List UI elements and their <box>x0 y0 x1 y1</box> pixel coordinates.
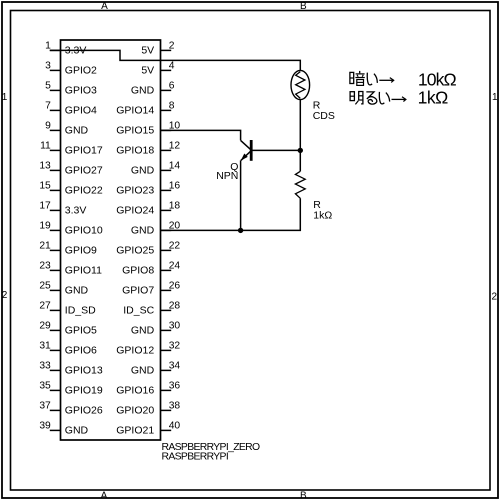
pin 30 (GND) right stub <box>131 321 181 337</box>
svg-text:37: 37 <box>39 401 51 412</box>
svg-text:19: 19 <box>39 221 51 232</box>
svg-text:11: 11 <box>40 141 51 152</box>
svg-text:14: 14 <box>169 161 181 172</box>
svg-text:26: 26 <box>169 281 181 292</box>
svg-text:24: 24 <box>169 261 181 272</box>
pin 3 (GPIO2) left stub <box>45 61 97 77</box>
svg-text:NPN: NPN <box>216 170 238 182</box>
annotation arrow right (line1) <box>379 78 393 83</box>
pin 19 (GPIO10) left stub <box>39 221 103 237</box>
svg-text:30: 30 <box>169 321 181 332</box>
wire CDS bottom to divider node <box>299 100 301 151</box>
svg-text:GND: GND <box>131 225 155 237</box>
svg-text:9: 9 <box>45 121 51 132</box>
svg-text:8: 8 <box>169 101 175 112</box>
svg-text:GPIO8: GPIO8 <box>122 265 154 277</box>
svg-text:GND: GND <box>65 285 89 297</box>
pin 34 (GND) right stub <box>131 361 181 377</box>
svg-text:GND: GND <box>131 165 155 177</box>
svg-text:GPIO4: GPIO4 <box>65 105 97 117</box>
pin 2 (5V) right stub <box>141 41 174 57</box>
svg-text:2: 2 <box>169 41 175 52</box>
pin 26 (GPIO7) right stub <box>122 281 180 297</box>
pin 11 (GPIO17) left stub <box>40 141 103 157</box>
svg-text:RASPBERRYPI: RASPBERRYPI <box>162 452 229 463</box>
pin 5 (GPIO3) left stub <box>45 81 97 97</box>
junction node emitter-GND <box>238 228 243 233</box>
svg-text:B: B <box>300 1 307 12</box>
svg-text:25: 25 <box>39 281 51 292</box>
pin 36 (GPIO16) right stub <box>116 381 180 397</box>
svg-text:33: 33 <box>39 361 51 372</box>
svg-text:GPIO2: GPIO2 <box>65 65 97 77</box>
pin 21 (GPIO9) left stub <box>39 241 97 257</box>
svg-text:GPIO21: GPIO21 <box>116 425 154 437</box>
svg-text:21: 21 <box>39 241 51 252</box>
svg-text:28: 28 <box>169 301 181 312</box>
svg-text:22: 22 <box>169 241 181 252</box>
svg-text:1kΩ: 1kΩ <box>313 210 332 222</box>
wire transistor base to divider node <box>252 149 300 151</box>
wire pin1 3.3V to CDS top (steps down across IC) <box>50 50 300 70</box>
svg-text:GPIO12: GPIO12 <box>116 345 154 357</box>
svg-text:GND: GND <box>131 325 155 337</box>
svg-text:ID_SD: ID_SD <box>65 305 96 317</box>
wire pin20 GND rail to resistor bottom <box>161 198 301 230</box>
svg-text:GND: GND <box>65 425 89 437</box>
resistor R 1k zigzag <box>295 171 305 198</box>
svg-text:40: 40 <box>169 421 181 432</box>
svg-text:GPIO18: GPIO18 <box>116 145 154 157</box>
pin 18 (GPIO24) right stub <box>116 201 180 217</box>
pin 14 (GND) right stub <box>131 161 181 177</box>
pin 35 (GPIO19) left stub <box>39 381 103 397</box>
svg-text:GPIO14: GPIO14 <box>116 105 154 117</box>
svg-text:GPIO3: GPIO3 <box>65 85 97 97</box>
svg-text:A: A <box>101 490 108 500</box>
svg-text:5V: 5V <box>141 45 154 57</box>
svg-text:31: 31 <box>39 341 51 352</box>
svg-text:38: 38 <box>169 401 181 412</box>
svg-text:GPIO20: GPIO20 <box>116 405 154 417</box>
pin 38 (GPIO20) right stub <box>116 401 180 417</box>
pin 27 (ID_SD) left stub <box>39 301 96 317</box>
pin 9 (GND) left stub <box>45 121 88 137</box>
svg-text:GPIO13: GPIO13 <box>65 365 103 377</box>
pin 4 (5V) right stub <box>141 61 174 77</box>
svg-text:GPIO22: GPIO22 <box>65 185 103 197</box>
svg-text:36: 36 <box>169 381 181 392</box>
pin 12 (GPIO18) right stub <box>116 141 180 157</box>
svg-text:GPIO10: GPIO10 <box>65 225 103 237</box>
svg-text:3.3V: 3.3V <box>65 205 87 217</box>
pin 16 (GPIO23) right stub <box>116 181 180 197</box>
svg-text:12: 12 <box>169 141 181 152</box>
svg-text:GPIO25: GPIO25 <box>116 245 154 257</box>
svg-text:1kΩ: 1kΩ <box>418 88 449 108</box>
svg-text:6: 6 <box>169 81 175 92</box>
svg-text:7: 7 <box>45 101 51 112</box>
svg-text:GPIO26: GPIO26 <box>65 405 103 417</box>
svg-text:5: 5 <box>45 81 51 92</box>
svg-text:1: 1 <box>492 92 498 103</box>
svg-text:39: 39 <box>39 421 51 432</box>
svg-text:GPIO11: GPIO11 <box>65 265 102 277</box>
pin 23 (GPIO11) left stub <box>39 261 102 277</box>
svg-text:4: 4 <box>169 61 175 72</box>
svg-text:GPIO19: GPIO19 <box>65 385 103 397</box>
svg-text:13: 13 <box>39 161 51 172</box>
annotation arrow right (line2) <box>392 97 406 102</box>
svg-text:GND: GND <box>131 85 155 97</box>
pin 32 (GPIO12) right stub <box>116 341 180 357</box>
svg-text:2: 2 <box>492 292 498 303</box>
svg-text:GPIO16: GPIO16 <box>116 385 154 397</box>
annotation text kana I (line2) <box>379 93 389 104</box>
svg-text:GPIO6: GPIO6 <box>65 345 97 357</box>
svg-text:1: 1 <box>2 92 8 103</box>
svg-text:GND: GND <box>65 125 89 137</box>
svg-text:GPIO24: GPIO24 <box>116 205 154 217</box>
pin 8 (GPIO14) right stub <box>116 101 174 117</box>
wire transistor emitter down to GND rail <box>240 160 242 230</box>
transistor Q NPN (mirrored, base right) <box>241 140 252 161</box>
svg-text:ID_SC: ID_SC <box>123 305 154 317</box>
annotation text kana I (line1) <box>367 73 377 85</box>
pin 22 (GPIO25) right stub <box>116 241 180 257</box>
svg-text:GPIO9: GPIO9 <box>65 245 97 257</box>
pin 31 (GPIO6) left stub <box>39 341 97 357</box>
annotation text kana RU <box>367 92 377 104</box>
svg-text:GPIO23: GPIO23 <box>116 185 154 197</box>
annotation text kanji KURAI (dark) <box>350 71 365 86</box>
wire divider node down to resistor R 1k top <box>299 150 301 171</box>
svg-text:16: 16 <box>169 181 181 192</box>
pin 6 (GND) right stub <box>131 81 175 97</box>
svg-text:29: 29 <box>39 321 51 332</box>
pin 1 (3.3V) left stub <box>45 41 86 57</box>
svg-text:GPIO7: GPIO7 <box>122 285 154 297</box>
svg-text:27: 27 <box>39 301 51 312</box>
svg-text:17: 17 <box>39 201 51 212</box>
svg-text:GPIO15: GPIO15 <box>116 125 154 137</box>
svg-text:32: 32 <box>169 341 181 352</box>
svg-text:2: 2 <box>2 290 8 301</box>
wire pin10 GPIO15 to transistor collector <box>161 130 241 140</box>
pin 24 (GPIO8) right stub <box>122 261 180 277</box>
svg-text:35: 35 <box>39 381 51 392</box>
pin 17 (3.3V) left stub <box>39 201 86 217</box>
junction node divider (CDS / R 1k / base) <box>298 148 303 153</box>
svg-text:5V: 5V <box>141 65 154 77</box>
svg-text:23: 23 <box>39 261 51 272</box>
pin 40 (GPIO21) right stub <box>116 421 180 437</box>
pin 37 (GPIO26) left stub <box>39 401 103 417</box>
svg-text:CDS: CDS <box>313 110 335 122</box>
IC U1 RASPBERRYPI_ZERO body <box>61 40 161 440</box>
svg-text:GPIO27: GPIO27 <box>65 165 103 177</box>
svg-text:GPIO17: GPIO17 <box>65 145 103 157</box>
svg-text:B: B <box>300 490 307 500</box>
pin 7 (GPIO4) left stub <box>45 101 97 117</box>
pin 29 (GPIO5) left stub <box>39 321 97 337</box>
pin 25 (GND) left stub <box>39 281 88 297</box>
pin 15 (GPIO22) left stub <box>39 181 103 197</box>
svg-text:GND: GND <box>131 365 155 377</box>
pin 39 (GND) left stub <box>39 421 88 437</box>
pin 13 (GPIO27) left stub <box>39 161 103 177</box>
svg-text:A: A <box>101 1 108 12</box>
annotation text kanji AKARUI (bright) <box>350 92 363 105</box>
pin 20 (GND) right stub <box>131 221 181 237</box>
svg-text:15: 15 <box>39 181 51 192</box>
svg-text:GPIO5: GPIO5 <box>65 325 97 337</box>
pin 33 (GPIO13) left stub <box>39 361 103 377</box>
pin 10 (GPIO15) right stub <box>116 121 180 137</box>
svg-text:10kΩ: 10kΩ <box>418 70 457 90</box>
svg-text:18: 18 <box>169 201 181 212</box>
photoresistor R CDS <box>291 70 310 99</box>
pin 28 (ID_SC) right stub <box>123 301 180 317</box>
svg-text:34: 34 <box>169 361 181 372</box>
svg-text:3: 3 <box>45 61 51 72</box>
